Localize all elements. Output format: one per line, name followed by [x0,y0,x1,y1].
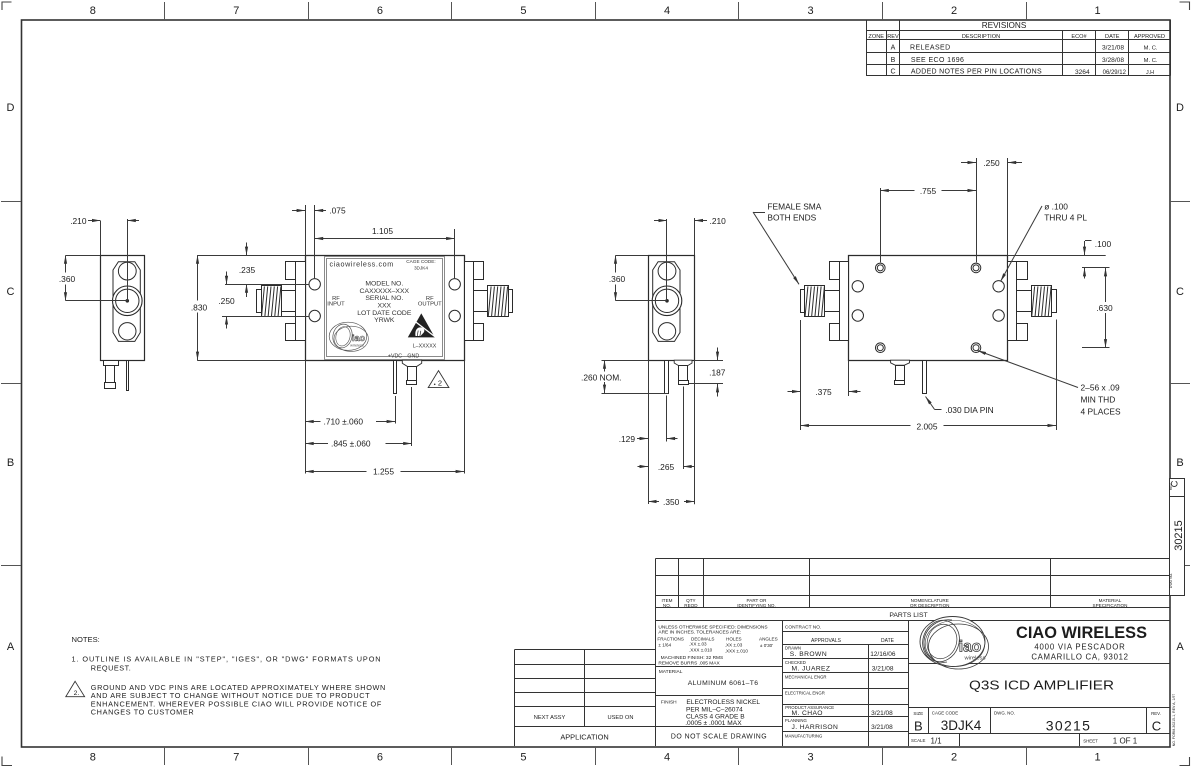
note 2 flag triangle [66,681,85,697]
callout 2-56 thread [978,351,1121,417]
ciao wireless logo [917,615,989,669]
svg-text:3: 3 [807,752,813,764]
svg-text:APPROVED: APPROVED [1134,34,1165,40]
view3 connector centerline [666,219,668,301]
dimension .129 [619,434,678,444]
bottom mounting circle [658,323,675,340]
dwg no cell [994,710,1091,733]
svg-text:OR DESCRIPTION: OR DESCRIPTION [910,603,950,608]
label plate [325,257,445,360]
title block grid [909,664,1171,747]
svg-text:ZONE: ZONE [868,34,884,40]
view3 gnd turret collar [674,360,692,365]
bottom mounting circle [119,323,136,340]
svg-text:8: 8 [90,752,96,764]
svg-text:D: D [1176,102,1184,114]
front gnd turret stem [408,367,417,381]
svg-text:REVISIONS: REVISIONS [982,21,1027,30]
svg-text:3DJK4: 3DJK4 [414,266,428,271]
svg-text:DATE: DATE [1105,34,1120,40]
svg-text:.210: .210 [710,216,727,226]
approvals/date header [811,638,895,644]
label ESD triangle [408,313,436,337]
svg-text:L–XXXXX: L–XXXXX [413,343,437,349]
planning row [785,718,893,731]
top mounting circle [658,262,676,280]
svg-text:A: A [7,641,15,653]
svg-text:FEMALE SMA: FEMALE SMA [767,202,821,212]
front right SMA bottom boss [474,324,484,341]
svg-text:M. JUAREZ: M. JUAREZ [792,666,831,673]
svg-text:C: C [890,69,895,76]
svg-text:Q3S ICD AMPLIFIER: Q3S ICD AMPLIFIER [969,678,1114,692]
dimension .210 view1 [70,216,139,255]
front mounting hole bottom-left [309,310,320,321]
front right SMA threads [488,286,509,317]
svg-text:CHANGES TO CUSTOMER: CHANGES TO CUSTOMER [91,708,194,717]
svg-text:FRACTIONS: FRACTIONS [657,637,684,642]
zone tick marks left [1,202,21,566]
svg-text:MODEL NO.: MODEL NO. [365,281,403,288]
front vdc wire pin [394,361,397,394]
svg-text:CAGE CODE:: CAGE CODE: [406,259,435,264]
svg-text:7: 7 [233,752,239,764]
svg-text:1: 1 [1095,752,1101,764]
finish cell [661,699,760,727]
svg-text:M. C.: M. C. [1144,46,1158,52]
svg-text:USED ON: USED ON [608,715,634,721]
svg-text:REQD: REQD [684,603,698,608]
svg-text:ANGLES: ANGLES [759,637,778,642]
svg-text:3264: 3264 [1075,69,1090,76]
flag note 2 triangle [428,371,449,388]
svg-text:DWG. NO.: DWG. NO. [994,710,1015,715]
zone letters left [7,102,15,653]
SMA connector face outer [652,286,682,316]
side view body [649,256,695,361]
svg-text:.235: .235 [239,265,256,275]
top mounting circle [118,262,136,280]
svg-text:+VDC: +VDC [388,354,402,360]
connector hex plate [113,262,140,342]
svg-text:3/21/08: 3/21/08 [871,710,893,717]
svg-text:ELECTRICAL ENGR: ELECTRICAL ENGR [785,691,825,696]
callout FEMALE SMA BOTH ENDS [753,202,822,285]
svg-text:B: B [914,718,923,733]
SMA center pin [126,300,129,303]
svg-text:.360: .360 [609,274,626,284]
svg-text:3/28/08: 3/28/08 [1102,57,1124,64]
svg-text:6: 6 [377,752,383,764]
svg-text:MIN THD: MIN THD [1081,395,1116,405]
svg-text:.XX ±.03: .XX ±.03 [689,642,707,647]
svg-text:2: 2 [951,5,957,17]
svg-text:.XX ±.03: .XX ±.03 [725,642,743,647]
parts list grid [656,558,1171,746]
top view connector holes left [852,281,863,292]
zone tick marks right [1170,202,1190,566]
front left SMA bottom boss [286,324,296,341]
front left SMA flange plate [296,262,306,341]
dimension .755 [880,158,976,262]
dimension .100 right [1008,239,1112,279]
svg-text:.187: .187 [709,368,726,378]
svg-text:5: 5 [520,5,526,17]
svg-text:RELEASED: RELEASED [910,44,951,51]
front gnd turret cap [407,381,417,385]
checked row [785,660,894,673]
svg-text:iao: iao [959,639,981,656]
dimension 1.105 [315,226,455,278]
svg-text:ELECTROLESS NICKEL: ELECTROLESS NICKEL [686,699,760,706]
svg-text:DRAWN: DRAWN [785,646,801,651]
svg-text:NO. FORM-30215-1, REV A, 1/97: NO. FORM-30215-1, REV A, 1/97 [1172,694,1176,747]
svg-text:± 0'30': ± 0'30' [760,643,773,648]
VIEW 4 top view body [849,256,1008,361]
svg-text:REV.: REV. [1151,711,1161,716]
svg-text:.360: .360 [59,274,76,284]
svg-text:4 PLACES: 4 PLACES [1081,407,1121,417]
view1 gnd pin stem [106,366,115,383]
svg-text:HOLES: HOLES [726,637,742,642]
svg-text:MANUFACTURING: MANUFACTURING [785,733,823,738]
zone tick marks bottom [165,747,1027,765]
tolerance block grid [656,620,783,746]
zone numbers top [90,5,1101,17]
svg-text:3: 3 [807,5,813,17]
svg-text:C: C [1176,286,1184,298]
dimension .250 top [961,158,1022,255]
svg-text:MATERIAL: MATERIAL [659,669,683,675]
svg-text:A: A [1176,641,1184,653]
svg-text:2.005: 2.005 [917,421,938,431]
svg-text:PLANNING: PLANNING [785,718,808,723]
SMA connector face inner [655,289,678,312]
SMA center pin [666,300,669,303]
front right SMA end cap [509,290,513,313]
svg-text:.100: .100 [1095,239,1112,249]
svg-text:REQUEST.: REQUEST. [91,664,132,673]
svg-text:1.255: 1.255 [373,467,394,477]
top view connector holes right [993,281,1004,292]
front left SMA end cap [257,290,262,313]
top left SMA bottom boss [830,324,840,341]
svg-text:CAGE CODE: CAGE CODE [932,710,958,715]
svg-text:1.105: 1.105 [372,226,393,236]
dimension .260 NOM [576,360,668,393]
dimension .630 [1082,268,1118,348]
approvals block grid [783,620,909,746]
screw hole top-left 2-56 [876,263,886,273]
note 1 [72,655,382,673]
connector hex plate [653,262,680,342]
svg-text:2–56 x .09: 2–56 x .09 [1081,383,1120,393]
front left SMA neck [282,291,296,312]
svg-text:APPLICATION: APPLICATION [560,732,608,741]
revision row C [890,69,1154,76]
svg-text:1/1: 1/1 [931,737,943,746]
svg-text:CIAO WIRELESS: CIAO WIRELESS [1016,624,1147,642]
label cage code [406,259,435,270]
label ciao logo [329,322,368,351]
svg-text:.375: .375 [815,387,832,397]
svg-text:.XXX ±.010: .XXX ±.010 [689,648,713,653]
side view body [101,256,145,361]
front right SMA flange plate [465,262,474,341]
view1 vdc wire [127,361,129,391]
svg-text:DO NOT SCALE DRAWING: DO NOT SCALE DRAWING [671,734,767,741]
svg-text:2: 2 [438,379,442,388]
top view turret pin [891,360,910,365]
application block grid [514,650,656,747]
label model/serial/lot [357,281,412,325]
svg-text:A: A [891,44,896,51]
dimension .350 [648,496,695,507]
top right SMA flange plate [1008,262,1017,341]
screw hole bottom-right 2-56 [971,343,981,353]
front mounting hole bottom-right [449,310,460,321]
dimension .710 [305,360,395,473]
svg-text:iao: iao [352,333,366,343]
revisions table grid [866,20,1170,76]
svg-text:B: B [1176,457,1183,469]
svg-text:12/16/06: 12/16/06 [870,651,896,658]
note 2 text [91,683,386,717]
dimension .375 [788,320,861,430]
svg-text:MECHANICAL ENGR: MECHANICAL ENGR [785,675,827,680]
top right SMA top boss [1017,262,1028,280]
label RF INPUT [327,296,345,308]
svg-text:.265: .265 [658,462,675,472]
tolerance block texts [657,624,777,666]
svg-text:.250: .250 [983,158,1000,168]
svg-text:INPUT: INPUT [327,302,345,308]
view1 gnd pin boss [104,361,119,366]
svg-text:REV: REV [887,34,899,40]
view1 connector centerline [127,219,129,301]
VIEW 2 front view body [306,256,465,361]
svg-text:CAMARILLO CA, 93012: CAMARILLO CA, 93012 [1031,652,1128,661]
svg-text:4: 4 [664,752,670,764]
dimension .210 view3 [654,216,726,255]
svg-text:.129: .129 [619,434,636,444]
svg-text:REMOVE BURRS .005 MAX: REMOVE BURRS .005 MAX [658,660,720,666]
svg-text:UNLESS OTHERWISE SPECIFIED: DI: UNLESS OTHERWISE SPECIFIED: DIMENSIONS [658,624,767,630]
svg-text:SPECIFICATION: SPECIFICATION [1093,603,1128,608]
svg-text:SHEET: SHEET [1083,738,1098,743]
svg-text:J. HARRISON: J. HARRISON [792,724,839,731]
parts list column headers [662,598,1128,608]
svg-text:OUTPUT: OUTPUT [418,302,442,308]
svg-text:IDENTIFYING NO.: IDENTIFYING NO. [737,603,776,608]
svg-text:M. C.: M. C. [1144,58,1158,64]
svg-text:ADDED NOTES PER PIN LOCATIONS: ADDED NOTES PER PIN LOCATIONS [911,69,1042,76]
view3 extension lines below [649,360,695,504]
next assy / used on labels [534,715,634,721]
svg-text:J.H: J.H [1146,70,1154,76]
view3 vdc wire [665,361,669,394]
svg-text:DATE: DATE [881,638,895,644]
svg-text:NOTES:: NOTES: [72,635,100,644]
product assurance row [785,705,893,717]
svg-text:.0005 ± .0001 MAX: .0005 ± .0001 MAX [685,720,742,727]
callout dia .100 thru 4 pl [1001,202,1088,282]
svg-text:REV: REV [1169,482,1173,490]
svg-text:3DJK4: 3DJK4 [941,718,982,733]
label +VDC GND [388,354,419,360]
svg-text:3/21/08: 3/21/08 [1102,45,1124,52]
svg-text:3/21/08: 3/21/08 [871,724,893,731]
top left SMA flange plate [840,262,849,341]
dimension .075 [292,205,346,278]
dimension .265 [638,462,695,472]
svg-text:8: 8 [90,5,96,17]
svg-text:3/21/08: 3/21/08 [872,666,894,673]
svg-text:06/29/12: 06/29/12 [1103,70,1127,76]
front left SMA threads [262,286,282,317]
revision row B [891,57,1158,64]
front right SMA top boss [474,262,484,280]
top right SMA neck [1017,291,1032,312]
svg-text:C: C [7,286,15,298]
svg-text:.710 ±.060: .710 ±.060 [324,416,364,426]
svg-text:APPROVALS: APPROVALS [811,638,842,644]
svg-text:LOT DATE CODE: LOT DATE CODE [357,310,412,317]
svg-text:XXX: XXX [377,302,391,309]
svg-text:2.: 2. [74,690,80,697]
svg-text:SEE ECO 1696: SEE ECO 1696 [911,57,964,64]
callout .030 DIA PIN [926,397,994,416]
svg-text:.075: .075 [329,206,346,216]
revision row A [891,44,1158,51]
svg-text:SCALE: SCALE [911,738,925,743]
ciao address [1031,643,1128,662]
svg-text:1: 1 [1095,5,1101,17]
svg-text:CONTRACT NO.: CONTRACT NO. [785,624,821,630]
svg-text:THRU 4 PL: THRU 4 PL [1044,213,1087,223]
svg-text:MACHINED FINISH: 32 RMS: MACHINED FINISH: 32 RMS [661,655,724,661]
top left SMA end cap [801,290,805,313]
material cell [659,669,759,687]
svg-text:SIZE: SIZE [913,711,923,716]
top left SMA neck [825,291,840,312]
svg-text:5: 5 [520,752,526,764]
svg-text:1 OF 1: 1 OF 1 [1113,737,1138,746]
svg-text:.250: .250 [218,296,235,306]
view3 gnd turret stem [679,366,688,381]
svg-text:wireless: wireless [964,656,986,662]
top view .030 dia pin [923,361,927,394]
svg-text:DESCRIPTION: DESCRIPTION [962,34,1000,40]
view1 gnd pin cap [105,383,116,389]
dimension 1.255 [305,360,464,477]
front gnd turret collar [402,360,421,367]
svg-text:.830: .830 [191,303,208,313]
screw hole top-right 2-56 [971,263,981,273]
svg-text:.260 NOM.: .260 NOM. [581,372,622,382]
screw hole bottom-left 2-56 [876,343,886,353]
svg-text:B: B [891,57,896,64]
view3 gnd turret cap [679,381,689,385]
svg-text:NEXT ASSY: NEXT ASSY [534,715,566,721]
front mounting hole top-right [449,279,460,290]
top left SMA threads [805,286,825,317]
svg-text:S. BROWN: S. BROWN [790,651,827,658]
cage code cell [932,710,982,733]
svg-text:FINISH: FINISH [661,700,677,706]
top right SMA end cap [1052,290,1057,313]
front left SMA top boss [286,262,296,280]
dimension .250 [218,272,308,329]
zone tick marks top [165,2,1027,20]
front right SMA neck [474,291,488,312]
dimension .360 view1 [54,255,127,301]
SMA connector face outer [113,286,143,316]
top right SMA threads [1032,286,1052,317]
svg-text:4: 4 [664,5,670,17]
svg-text:ARE IN INCHES. TOLERANCES AR: ARE IN INCHES. TOLERANCES ARE: [658,630,741,636]
svg-text:SERIAL NO.: SERIAL NO. [365,295,403,302]
dimension .360 view3 [605,255,668,301]
dimension .830 [186,255,305,360]
top right SMA bottom boss [1017,324,1028,341]
size cell [913,711,923,733]
svg-text:CHECKED: CHECKED [785,660,806,665]
svg-text:BOTH ENDS: BOTH ENDS [767,213,816,223]
svg-text:ECO#: ECO# [1071,34,1087,40]
svg-text:4000 VIA PESCADOR: 4000 VIA PESCADOR [1034,643,1125,652]
svg-text:B: B [7,457,14,469]
rev cell [1151,711,1161,733]
front mounting hole top-left [309,279,320,290]
svg-text:wireless: wireless [350,344,364,348]
dimension .187 [689,348,726,397]
dimension .845 [305,387,412,449]
svg-text:.030 DIA PIN: .030 DIA PIN [945,405,993,415]
svg-text:± 1/64: ± 1/64 [658,642,671,647]
revisions column headers [868,34,1165,40]
svg-text:.630: .630 [1096,303,1113,313]
svg-text:ø .100: ø .100 [1044,202,1068,212]
svg-text:30215: 30215 [1173,520,1185,551]
SMA connector face inner [116,289,139,312]
svg-text:6: 6 [377,5,383,17]
label RF OUTPUT [418,296,442,308]
svg-text:.845 ±.060: .845 ±.060 [331,439,371,449]
svg-text:.755: .755 [920,186,937,196]
svg-text:D: D [7,102,15,114]
svg-text:GND: GND [407,354,419,360]
svg-text:7: 7 [233,5,239,17]
scale row [911,737,1138,746]
svg-text:.350: .350 [663,497,680,507]
top left SMA top boss [830,262,840,280]
drawn row [785,646,896,659]
svg-text:30215: 30215 [1046,718,1091,734]
svg-text:1. OUTLINE IS AVAILABLE IN "S: 1. OUTLINE IS AVAILABLE IN "STEP", "IGES… [72,655,382,664]
svg-text:M. CHAO: M. CHAO [792,710,823,717]
svg-text:CAXXXXX–XXX: CAXXXXX–XXX [360,288,410,295]
svg-text:YRWK: YRWK [374,317,395,324]
svg-text:PARTS LIST: PARTS LIST [889,612,927,619]
svg-text:ALUMINUM 6061–T6: ALUMINUM 6061–T6 [688,680,759,687]
svg-text:NO.: NO. [663,603,671,608]
svg-text:.210: .210 [70,216,87,226]
fold-over dwg number block [1170,479,1185,596]
svg-text:ciaowireless.com: ciaowireless.com [330,260,394,269]
zone numbers bottom [90,752,1101,764]
svg-text:2: 2 [951,752,957,764]
